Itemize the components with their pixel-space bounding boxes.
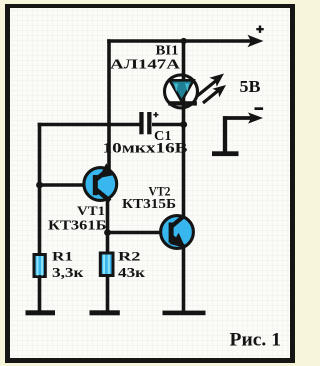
common rail bar under VT2 emitter	[163, 311, 206, 316]
wire VT2 base	[108, 231, 163, 235]
wire VT1 base	[38, 183, 86, 187]
minus label of supply	[255, 107, 264, 110]
common rail bar under R1	[26, 310, 56, 315]
+supply terminal arrow	[248, 35, 264, 47]
node VT1 collector / R2 / VT2 base junction	[104, 229, 111, 236]
common rail bar under R2	[90, 310, 120, 315]
plus label of supply	[256, 26, 263, 33]
node C1/LED cathode junction	[180, 121, 187, 128]
svg-text:5В: 5В	[240, 77, 261, 96]
svg-text:АЛ147А: АЛ147А	[110, 58, 181, 73]
transistor VT2	[161, 216, 194, 249]
wire VT1 collector to R2	[106, 199, 110, 253]
wire main right vertical (LED / VT2 collector-emitter)	[182, 41, 186, 312]
wire top positive rail	[107, 39, 252, 43]
LED light arrow 2	[203, 85, 226, 103]
svg-text:R2: R2	[118, 249, 141, 264]
svg-text:R1: R1	[52, 249, 73, 264]
wire C1 right segment	[152, 123, 184, 127]
wire R2 bottom lead	[106, 276, 110, 312]
capacitor C1 polarity plus	[153, 112, 158, 117]
svg-text:КТ361Б: КТ361Б	[48, 217, 107, 232]
transistor VT1	[84, 163, 117, 201]
wire C1 left segment	[38, 123, 140, 127]
wire left vertical (VT1 emitter to rail)	[107, 39, 111, 169]
svg-text:3,3к: 3,3к	[52, 265, 84, 280]
node bias divider junction	[36, 182, 43, 189]
resistor R2	[100, 253, 113, 276]
node rail/LED junction	[181, 38, 187, 44]
svg-text:BI1: BI1	[156, 44, 179, 59]
wire left bias vertical	[38, 123, 42, 254]
capacitor C1 plates	[139, 112, 151, 134]
svg-text:КТ315Б: КТ315Б	[122, 196, 176, 211]
-supply terminal wire	[223, 116, 227, 152]
LED light arrow 1	[197, 74, 225, 97]
-supply terminal arrow	[248, 112, 263, 123]
svg-text:10мкх16В: 10мкх16В	[103, 141, 188, 157]
wire R1 bottom lead	[38, 277, 42, 312]
svg-text:43к: 43к	[118, 265, 145, 280]
-supply bottom bar	[212, 151, 239, 156]
svg-text:VT1: VT1	[77, 204, 105, 218]
svg-text:Рис. 1: Рис. 1	[230, 330, 282, 351]
resistor R1	[34, 255, 45, 277]
LED BI1	[165, 74, 198, 108]
